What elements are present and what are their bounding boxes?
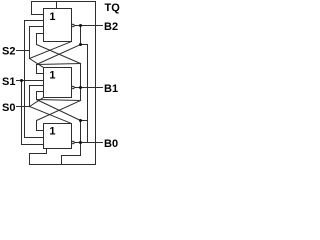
junction dot B1 xyxy=(79,86,82,89)
wire bowtie1 rising diagonal to box1 corner xyxy=(30,42,72,59)
svg-text:1: 1 xyxy=(49,11,55,23)
wire box2 input4 cross diagonal xyxy=(37,92,81,143)
wire bowtie1 lower chord xyxy=(37,64,81,65)
svg-text:B1: B1 xyxy=(104,83,118,95)
wire S2 stub xyxy=(17,50,30,52)
junction dot P1 xyxy=(79,24,82,27)
svg-text:1: 1 xyxy=(49,125,55,137)
buffer box U1 xyxy=(44,9,72,42)
buffer box U2 xyxy=(44,68,72,98)
wire Q2 corner xyxy=(81,120,88,122)
svg-text:S1: S1 xyxy=(2,76,15,88)
wire cell1 output to B2 xyxy=(74,25,103,27)
wire box1 top stub xyxy=(56,2,58,9)
svg-text:TQ: TQ xyxy=(105,2,121,14)
bubble output U3 xyxy=(72,141,75,144)
bubble output U1 xyxy=(72,24,75,27)
wire S1 drop to box3 input3 xyxy=(22,81,44,145)
svg-text:B2: B2 xyxy=(104,21,118,33)
wire right bus vertical xyxy=(95,2,97,165)
wire cell2 output drop cross diagonal to box3 input1 xyxy=(37,101,81,131)
wire cross diagonal Q1 to box2 input1 xyxy=(37,45,81,74)
wire bowtie2 upper chord xyxy=(37,100,81,101)
wire cell2 output to B1 xyxy=(73,87,102,89)
wire S1 line into box2 input2 xyxy=(17,80,44,82)
wire box1 input3 from S2 xyxy=(30,27,44,68)
wire box1 input4 cross diagonal xyxy=(37,34,81,101)
wire bottom bus line xyxy=(30,149,96,165)
wire top feedback and TQ bus line xyxy=(32,2,96,15)
wire cell1 output drop to Q1 xyxy=(80,26,82,45)
wire S0 stub xyxy=(17,106,30,108)
junction dot Q1 xyxy=(79,43,82,46)
wire B0 drop to bottom loop xyxy=(62,143,81,165)
bubble output U2 xyxy=(72,86,75,89)
wire box1 input1 xyxy=(32,14,44,16)
svg-text:S2: S2 xyxy=(2,45,15,57)
buffer box U3 xyxy=(44,124,72,149)
wire box1 input2 drop from S1 xyxy=(25,21,44,138)
wire S0 node lower diagonal xyxy=(30,107,72,124)
wire box2 input3 from S0 xyxy=(30,86,44,107)
svg-text:1: 1 xyxy=(49,69,55,81)
wire cell3 output to B0 xyxy=(74,142,103,144)
svg-text:S0: S0 xyxy=(2,102,15,114)
junction dot Q2 xyxy=(79,119,82,122)
svg-text:B0: B0 xyxy=(104,138,118,150)
wire Q1 corner and V3 xyxy=(81,45,88,143)
junction dot S1 xyxy=(20,79,23,82)
junction dot B0 xyxy=(79,141,82,144)
